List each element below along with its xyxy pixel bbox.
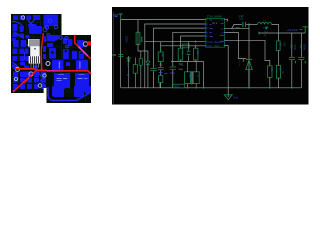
wire H2 with corner xyxy=(145,24,206,88)
capacitor C3 xyxy=(150,67,157,70)
capacitor C12 electrolytic xyxy=(300,33,302,88)
wire drain drop xyxy=(248,24,250,87)
svg-text:IC 1: IC 1 xyxy=(212,22,217,25)
transformer stubs xyxy=(188,61,197,87)
svg-text:0R22: 0R22 xyxy=(174,85,180,88)
wire bridge column 1 xyxy=(128,56,130,88)
IC nc pin orange xyxy=(225,19,228,21)
svg-text:230V~: 230V~ xyxy=(125,36,129,44)
light component text on caps xyxy=(57,62,88,82)
svg-text:10n: 10n xyxy=(239,18,244,21)
wire H7 xyxy=(171,60,203,62)
fuse F1 xyxy=(119,14,123,19)
svg-text:10k: 10k xyxy=(270,67,274,72)
resistor R1 xyxy=(136,32,140,44)
IC footprint white xyxy=(28,39,40,69)
svg-text:39k: 39k xyxy=(181,51,185,56)
svg-text:TR1: TR1 xyxy=(179,63,184,66)
wire HF rail xyxy=(246,23,257,25)
red traces pcb2 xyxy=(75,35,80,48)
svg-text:230: 230 xyxy=(188,74,191,79)
wire D4 to bus xyxy=(147,65,149,88)
transformer core xyxy=(190,71,193,84)
resistor R2 narrow xyxy=(139,59,142,66)
svg-text:100n: 100n xyxy=(170,72,176,75)
wire H4 xyxy=(181,35,206,37)
wire H3 xyxy=(173,31,206,33)
ground bus xyxy=(121,87,301,89)
resistor R10 xyxy=(276,66,280,79)
transformer TR1 windings xyxy=(185,72,191,84)
bridge rectifier diodes xyxy=(127,58,131,61)
output terminal xyxy=(303,27,308,33)
svg-text:+UF 150V: +UF 150V xyxy=(286,28,298,32)
svg-text:4k7: 4k7 xyxy=(161,53,165,58)
junction ticks on H5/H6 xyxy=(195,41,197,47)
resistor R7 xyxy=(268,66,272,78)
svg-text:C12: C12 xyxy=(299,44,302,49)
resistor R5 xyxy=(193,48,198,60)
svg-text:Gnd Gnd: Gnd Gnd xyxy=(207,45,219,48)
wire drop at x138 xyxy=(137,20,139,33)
capacitor C4 xyxy=(170,66,176,69)
capacitor C5 small between R3 R5 xyxy=(188,42,190,62)
wire H6 xyxy=(161,45,206,47)
svg-text:CM: CM xyxy=(112,54,116,57)
small bus ticks xyxy=(188,87,292,89)
svg-text:R: R xyxy=(282,71,284,74)
resistor R8 xyxy=(159,76,163,83)
label +U node xyxy=(265,27,268,29)
wire R7 to bus xyxy=(269,77,271,87)
wire vertical to R3 xyxy=(180,36,182,61)
junction ticks chain xyxy=(160,48,162,63)
resistor R4 horizontal xyxy=(182,44,189,48)
transistor T1 xyxy=(242,58,244,62)
diode D4 xyxy=(146,61,150,64)
AC input symbol xyxy=(114,15,118,17)
PCB photo 1 (left board) xyxy=(11,14,62,93)
svg-text:Comp /Sense: Comp /Sense xyxy=(207,41,222,44)
ground xyxy=(224,95,232,100)
svg-text:5VA: 5VA xyxy=(179,68,184,71)
svg-text:10k: 10k xyxy=(196,51,200,56)
capacitor small right of R1 xyxy=(141,37,142,43)
PCB photo 2 (right board, overlapping) xyxy=(44,35,91,103)
tick output rail left end xyxy=(258,32,260,34)
IC U1 TDA16846 box xyxy=(206,18,225,47)
wire bridge column 2 xyxy=(140,51,142,59)
wire IC gnd pin xyxy=(225,46,229,97)
output rail xyxy=(259,32,305,34)
svg-text:C11: C11 xyxy=(289,44,292,49)
inductor L1 xyxy=(258,22,272,24)
wire vertical to R5 xyxy=(195,46,197,62)
svg-text:470u: 470u xyxy=(293,44,297,50)
wire H5 xyxy=(145,41,206,43)
chain at x162: wire xyxy=(160,42,162,88)
wire feedback xyxy=(225,40,270,66)
wire R1 to diode chain xyxy=(138,44,148,61)
junction on HF rail xyxy=(248,23,250,25)
resistor R3 xyxy=(178,48,183,60)
capacitor CM on left line xyxy=(118,53,123,56)
IC right pin dots xyxy=(224,20,226,46)
capacitor C11 electrolytic xyxy=(291,33,293,88)
svg-text:4k7: 4k7 xyxy=(278,42,282,47)
resistor R11 in bus xyxy=(172,84,184,88)
wire after L1 xyxy=(272,24,279,33)
wire x203.4 down to bus xyxy=(202,61,204,87)
blue bottom trace xyxy=(48,87,91,101)
bus junction tick bright xyxy=(159,83,161,88)
wire source to bus xyxy=(248,70,250,88)
wire vertical x172.8 xyxy=(172,32,174,88)
wire drop cap C3 xyxy=(154,28,206,88)
wire gate drive xyxy=(225,33,247,59)
capacitor C10 xyxy=(242,22,243,27)
junction resistor chain x278.5 xyxy=(278,32,280,34)
capacitor C6 xyxy=(158,66,164,69)
svg-text:TDA 16846: TDA 16846 xyxy=(207,15,222,19)
resistor R6 xyxy=(158,52,163,62)
wire pin13 step up to HF rail xyxy=(225,24,249,28)
schematic background xyxy=(112,7,309,105)
resistor R9 on x278.5 xyxy=(278,33,280,41)
svg-text:Gnd: Gnd xyxy=(233,96,238,99)
wire top rail to IC pin 1 xyxy=(121,19,206,21)
svg-text:100u: 100u xyxy=(302,44,306,50)
wire left vertical line xyxy=(120,19,122,88)
svg-text:+U: +U xyxy=(264,31,267,34)
schematic frame edge xyxy=(112,12,114,104)
IC left pin dots xyxy=(205,20,207,46)
